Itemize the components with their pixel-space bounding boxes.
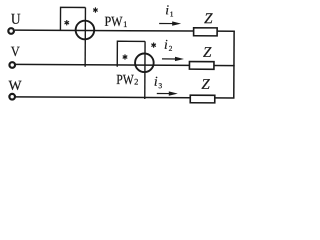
- wire right bus (star point): [233, 31, 235, 98]
- svg-text:Z: Z: [203, 45, 212, 61]
- svg-text:2: 2: [169, 44, 173, 53]
- wire U line after load to bus: [217, 30, 235, 32]
- terminal U: [8, 28, 14, 34]
- svg-text:i: i: [164, 37, 168, 52]
- svg-text:V: V: [11, 45, 20, 60]
- load Z3 box: [190, 95, 215, 103]
- load Z1 box: [194, 28, 218, 36]
- wire PW1 voltage-coil loop: [60, 7, 85, 30]
- label wattmeter PW1: [104, 15, 127, 30]
- svg-text:i: i: [165, 2, 169, 17]
- svg-text:i: i: [154, 74, 158, 89]
- svg-text:Z: Z: [204, 11, 213, 27]
- wattmeter PW2: [135, 53, 154, 72]
- wire W line after load to bus: [214, 97, 234, 99]
- svg-text:PW: PW: [116, 73, 134, 88]
- wire PW2 vertical through meter down to W line: [144, 41, 146, 99]
- svg-text:U: U: [11, 11, 21, 28]
- wire U line: [15, 29, 194, 32]
- current arrow i3: [157, 91, 178, 96]
- wire V line after load to bus: [213, 64, 234, 66]
- wattmeter PW1: [76, 21, 95, 40]
- current arrow i2: [162, 57, 184, 62]
- load Z2 box: [189, 62, 214, 70]
- wire PW2 voltage-coil loop: [117, 41, 145, 67]
- svg-text:1: 1: [170, 10, 174, 19]
- svg-text:PW: PW: [104, 15, 123, 30]
- svg-text:Z: Z: [201, 77, 210, 93]
- wire W line: [15, 96, 191, 99]
- svg-text:3: 3: [158, 81, 162, 90]
- label current i1: [165, 2, 174, 18]
- svg-text:W: W: [9, 78, 22, 93]
- current arrow i1: [159, 21, 181, 26]
- polarity asterisk PW2 line side: [123, 55, 127, 59]
- label current i3: [154, 74, 163, 90]
- svg-text:1: 1: [123, 19, 127, 29]
- label wattmeter PW2: [116, 73, 138, 88]
- polarity asterisk PW1 voltage side: [94, 8, 98, 12]
- polarity asterisk PW2 voltage side: [152, 43, 156, 47]
- label current i2: [164, 37, 173, 53]
- svg-text:2: 2: [134, 76, 138, 86]
- polarity asterisk PW1 line side: [65, 21, 69, 25]
- terminal V: [9, 62, 15, 68]
- wire V line: [15, 63, 190, 66]
- wire PW1 vertical through meter down to V line: [84, 7, 86, 66]
- terminal W: [9, 94, 15, 100]
